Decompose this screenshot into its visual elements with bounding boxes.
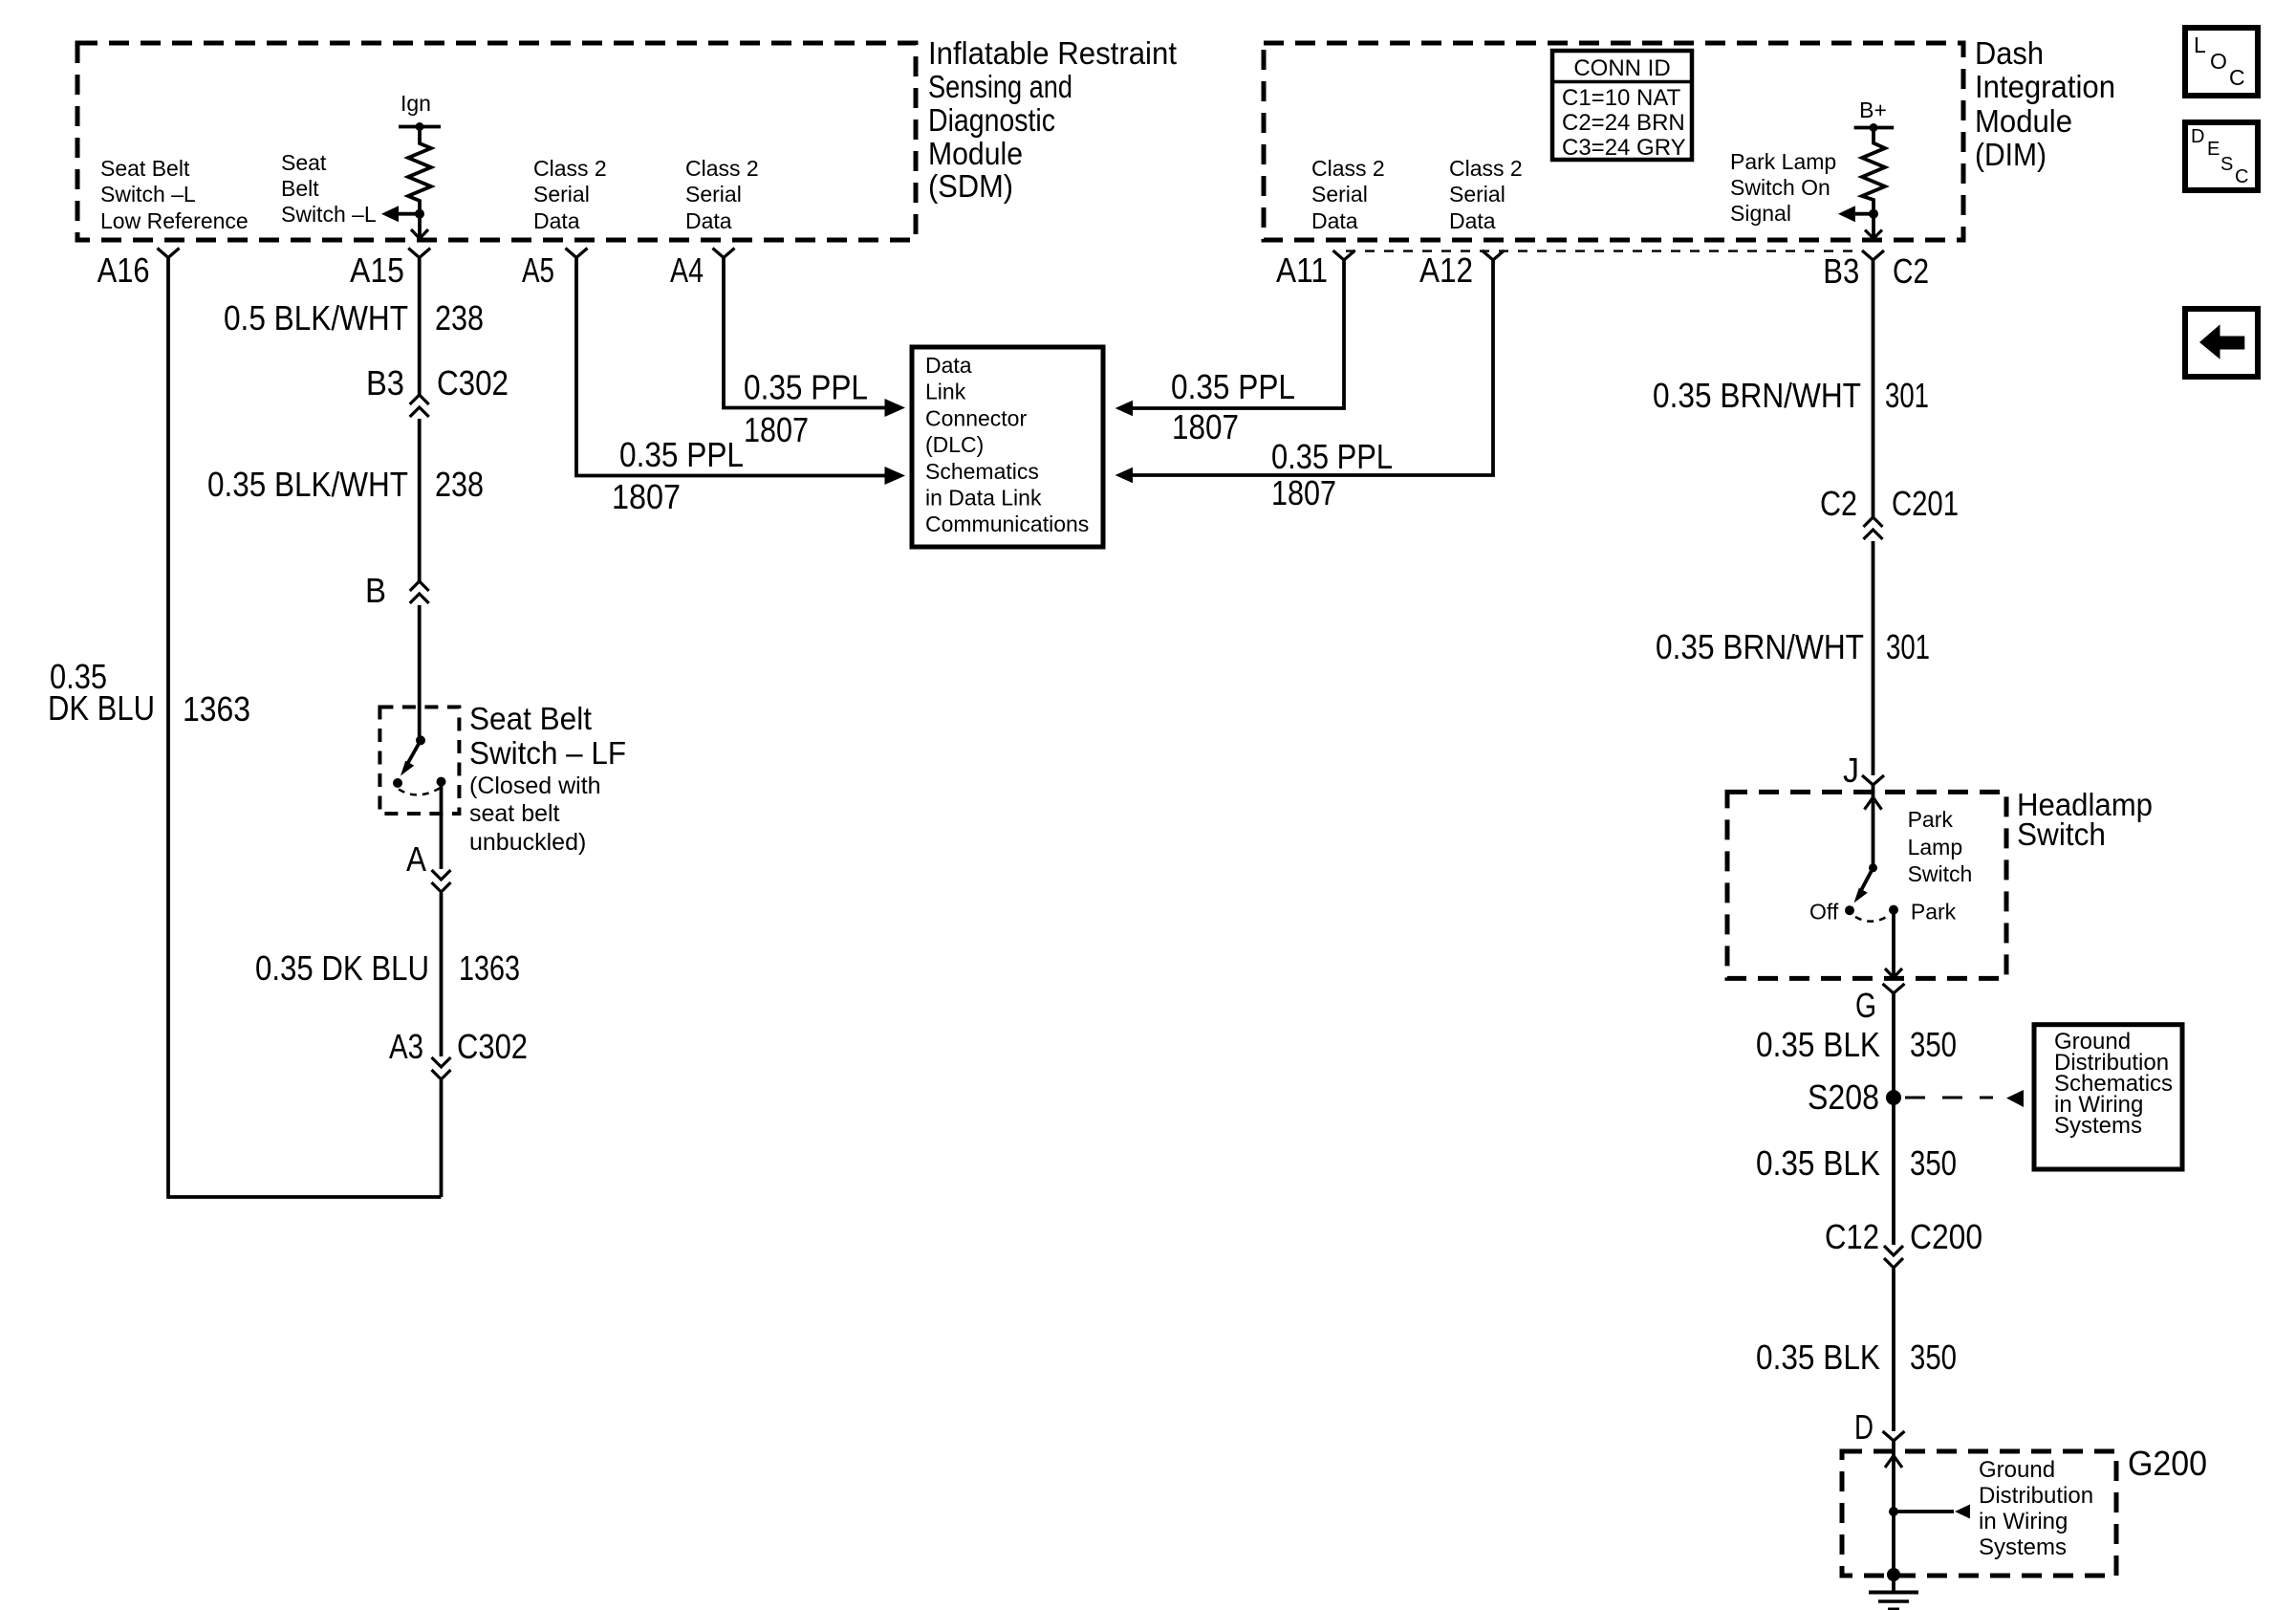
svg-text:0.35 BRN/WHT: 0.35 BRN/WHT [1656, 627, 1864, 666]
pin A16 [158, 249, 180, 258]
svg-text:G200: G200 [2128, 1444, 2207, 1483]
arrow to Seat Belt Switch -L label [381, 206, 420, 222]
svg-text:C2=24 BRN: C2=24 BRN [1562, 110, 1685, 136]
svg-text:D: D [1854, 1407, 1874, 1447]
wire: C201 to pin J [1872, 541, 1875, 775]
pin G [1855, 984, 1905, 1025]
svg-text:Module: Module [1975, 103, 2072, 139]
svg-text:Seat Belt: Seat Belt [469, 701, 592, 736]
resistor R-DIM (B+ pull-up inside DIM) [1854, 123, 1895, 214]
svg-text:Sensing and: Sensing and [928, 69, 1072, 104]
wire: A5 to DLC [576, 258, 905, 517]
svg-text:Data: Data [533, 208, 580, 233]
label: Seat Belt Switch -L Low Reference [100, 156, 249, 233]
svg-text:Communications: Communications [925, 511, 1089, 536]
wire: switch output to pin A [440, 782, 444, 869]
svg-text:(SDM): (SDM) [928, 168, 1013, 204]
svg-text:1363: 1363 [459, 948, 520, 988]
switch PLS arm with arrowhead [1854, 868, 1874, 903]
svg-text:C: C [2229, 65, 2245, 90]
in-line connector A [406, 839, 451, 892]
svg-text:Ground: Ground [1979, 1457, 2055, 1483]
wire: A16 low reference loop [168, 258, 442, 1198]
svg-text:301: 301 [1886, 627, 1930, 666]
label: Park Lamp Switch On Signal [1730, 149, 1836, 226]
pin J [1843, 751, 1884, 790]
svg-text:238: 238 [435, 298, 484, 337]
svg-text:238: 238 [435, 465, 484, 504]
module box: Inflatable Restraint Sensing and Diagnostic Module (SDM) [77, 43, 916, 240]
svg-text:Serial: Serial [1311, 182, 1368, 207]
svg-text:DK BLU: DK BLU [48, 688, 155, 728]
dashed throw arc [1855, 916, 1889, 922]
back-arrow legend box [2185, 309, 2258, 377]
pin A12 [1483, 250, 1505, 260]
svg-text:Park: Park [1908, 807, 1954, 832]
ground box G200 [1842, 1451, 2116, 1576]
LOC legend box [2185, 28, 2258, 96]
svg-text:350: 350 [1910, 1338, 1957, 1377]
svg-text:A3: A3 [389, 1027, 423, 1066]
svg-text:Inflatable Restraint: Inflatable Restraint [928, 35, 1177, 71]
module box: Headlamp Switch [1727, 792, 2006, 978]
svg-text:Switch: Switch [2017, 816, 2106, 852]
wire with down arrow to pin A15 [411, 214, 428, 239]
wire: A4 to DLC [724, 258, 905, 450]
svg-text:Ign: Ign [401, 91, 431, 116]
svg-text:Lamp: Lamp [1908, 835, 1963, 859]
switch contact wire-side [437, 777, 446, 787]
arrow to Ground Distribution reference [1894, 1457, 2093, 1560]
svg-text:Integration: Integration [1975, 69, 2115, 104]
wire: A11 to DLC [1116, 260, 1344, 446]
svg-text:(DLC): (DLC) [925, 432, 984, 457]
junction node at resistor output [1869, 209, 1878, 219]
arrow to Signal label [1838, 206, 1874, 222]
svg-text:0.35 BLK: 0.35 BLK [1756, 1338, 1880, 1377]
svg-text:Seat Belt: Seat Belt [100, 156, 190, 181]
svg-text:Off: Off [1809, 900, 1839, 925]
in-line connector B [365, 571, 429, 610]
svg-text:Serial: Serial [533, 182, 590, 207]
svg-text:0.35 BLK/WHT: 0.35 BLK/WHT [207, 465, 408, 504]
svg-text:Systems: Systems [1979, 1534, 2067, 1560]
wire: G to splice S208 [1892, 993, 1895, 1245]
svg-text:B3: B3 [366, 363, 404, 402]
svg-text:B+: B+ [1859, 98, 1887, 122]
pin D [1854, 1407, 1905, 1447]
svg-text:C1=10 NAT: C1=10 NAT [1562, 85, 1681, 111]
svg-text:Module: Module [928, 136, 1023, 171]
svg-text:1807: 1807 [612, 477, 681, 516]
label: Class 2 Serial Data (pin A4) [685, 156, 759, 233]
svg-text:Class 2: Class 2 [685, 156, 759, 181]
pin A5 [566, 249, 588, 258]
svg-text:Belt: Belt [281, 176, 319, 201]
svg-text:J: J [1843, 751, 1859, 790]
svg-text:C302: C302 [437, 363, 509, 402]
svg-text:CONN ID: CONN ID [1573, 55, 1670, 81]
svg-text:(Closed with: (Closed with [469, 772, 601, 799]
pin A4 [713, 249, 735, 258]
svg-text:Diagnostic: Diagnostic [928, 102, 1055, 138]
reference box: Data Link Connector (DLC) Schematics [912, 347, 1103, 547]
wire label 0.35 DK BLU 1363 [48, 657, 250, 729]
switch SBS-LF arm with arrowhead [401, 740, 421, 775]
svg-text:Serial: Serial [685, 182, 742, 207]
svg-text:301: 301 [1885, 376, 1929, 415]
wire: A12 to DLC [1116, 260, 1493, 512]
in-line connector B3/C302 [366, 363, 509, 417]
svg-text:0.35 DK BLU: 0.35 DK BLU [255, 948, 429, 988]
svg-text:Link: Link [925, 380, 966, 404]
svg-text:(DIM): (DIM) [1975, 137, 2047, 172]
svg-text:C12: C12 [1825, 1217, 1879, 1256]
svg-text:0.35 PPL: 0.35 PPL [1271, 437, 1393, 476]
wire: J into switch with up arrow [1865, 785, 1882, 868]
splice S208 [1808, 1077, 2024, 1117]
wire: A to connector A3/C302 [440, 893, 444, 1056]
svg-text:G: G [1855, 986, 1876, 1025]
wire: Park contact to pin G with down arrow [1885, 910, 1902, 978]
svg-text:A11: A11 [1276, 250, 1328, 290]
svg-text:Class 2: Class 2 [1449, 156, 1523, 181]
svg-text:in Wiring: in Wiring [1979, 1509, 2068, 1534]
svg-text:C200: C200 [1910, 1217, 1982, 1256]
svg-text:350: 350 [1910, 1143, 1957, 1183]
svg-text:C2: C2 [1893, 251, 1929, 291]
svg-text:Serial: Serial [1449, 182, 1505, 207]
svg-text:O: O [2210, 49, 2227, 74]
wire: B down into seat belt switch [418, 605, 422, 740]
component box: Seat Belt Switch - LF [379, 707, 459, 815]
svg-text:A4: A4 [670, 250, 704, 290]
svg-text:0.35 PPL: 0.35 PPL [1171, 367, 1295, 406]
svg-text:A5: A5 [522, 250, 554, 290]
switch PLS common contact [1869, 863, 1877, 872]
switch contact Off [1845, 905, 1854, 915]
wire: C302 to connector B [418, 419, 422, 581]
svg-text:Switch –L: Switch –L [281, 202, 377, 227]
ground symbol G200 [1869, 1568, 1918, 1609]
in-line connector C12/C200 [1825, 1217, 1982, 1268]
switch contact Park [1889, 905, 1898, 915]
svg-text:Switch –L: Switch –L [100, 182, 196, 207]
svg-text:C2: C2 [1820, 484, 1857, 523]
svg-text:unbuckled): unbuckled) [469, 829, 586, 856]
wire: A3 down to loop bottom [440, 1080, 444, 1197]
label: Park Lamp Switch [1908, 807, 1973, 886]
switch contact Off-side [393, 778, 402, 788]
wire: A15 to connector C302 [418, 258, 422, 396]
svg-text:Distribution: Distribution [1979, 1483, 2093, 1509]
module box: Dash Integration Module (DIM) [1264, 43, 1963, 240]
in-line connector A3/C302 [389, 1027, 528, 1079]
svg-text:0.35 PPL: 0.35 PPL [619, 435, 744, 474]
svg-text:Switch: Switch [1908, 861, 1973, 886]
label: Class 2 Serial Data (pin A12) [1449, 156, 1523, 233]
dashed throw arc [399, 788, 441, 794]
svg-text:0.35 BLK: 0.35 BLK [1756, 1143, 1880, 1183]
svg-text:in Data Link: in Data Link [925, 486, 1042, 511]
svg-text:Class 2: Class 2 [533, 156, 607, 181]
svg-text:A16: A16 [97, 250, 150, 290]
module name DIM [1975, 35, 2115, 172]
wire: C200 to pin D [1892, 1269, 1895, 1431]
svg-text:D: D [2191, 126, 2204, 147]
pin A15 [408, 249, 430, 258]
svg-text:Data: Data [1311, 208, 1358, 233]
svg-text:Data: Data [1449, 208, 1496, 233]
svg-text:C201: C201 [1892, 484, 1959, 523]
svg-text:B3: B3 [1823, 251, 1859, 291]
svg-text:Data: Data [685, 208, 732, 233]
svg-text:Seat: Seat [281, 150, 327, 175]
svg-text:1807: 1807 [1271, 473, 1336, 512]
junction node at resistor output [415, 209, 424, 219]
svg-text:seat belt: seat belt [469, 800, 560, 827]
svg-text:0.5 BLK/WHT: 0.5 BLK/WHT [224, 298, 408, 337]
svg-text:Data: Data [925, 353, 972, 378]
label: Class 2 Serial Data (pin A5) [533, 156, 607, 233]
svg-text:A15: A15 [350, 250, 404, 290]
svg-text:B: B [365, 571, 386, 610]
svg-text:Systems: Systems [2054, 1113, 2142, 1139]
in-line connector C2/C201 [1820, 484, 1959, 539]
switch SBS-LF common contact [416, 735, 425, 745]
svg-text:350: 350 [1910, 1025, 1957, 1064]
label: Class 2 Serial Data (pin A11) [1311, 156, 1385, 233]
wire: B3/C2 to connector C201 [1872, 260, 1875, 517]
connector C2 boundary (thin dashed) [1346, 250, 1854, 251]
module name SDM [928, 35, 1177, 204]
CONN ID table [1552, 51, 1692, 161]
DESC legend box [2185, 122, 2258, 190]
module name: Seat Belt Switch - LF [469, 701, 626, 856]
junction node in G200 [1889, 1507, 1898, 1516]
svg-text:Signal: Signal [1730, 201, 1791, 226]
svg-text:Park: Park [1911, 900, 1957, 925]
svg-text:A12: A12 [1419, 250, 1473, 290]
svg-text:E: E [2207, 139, 2220, 160]
svg-text:1807: 1807 [744, 410, 809, 449]
svg-text:1363: 1363 [183, 689, 250, 729]
svg-text:Schematics: Schematics [925, 459, 1039, 484]
pin A11 [1333, 250, 1355, 260]
svg-text:Switch – LF: Switch – LF [469, 735, 626, 771]
svg-text:1807: 1807 [1172, 407, 1239, 446]
svg-text:Class 2: Class 2 [1311, 156, 1385, 181]
svg-text:0.35 PPL: 0.35 PPL [744, 368, 868, 407]
svg-text:S: S [2220, 154, 2233, 175]
reference box: Ground Distribution Schematics in Wiring Systems [2034, 1025, 2182, 1169]
svg-text:C302: C302 [457, 1027, 528, 1066]
resistor R-SDM (ignition pull-up inside SDM) [399, 122, 441, 214]
module name: Headlamp Switch [2017, 787, 2153, 852]
svg-text:Switch On: Switch On [1730, 175, 1830, 200]
svg-text:L: L [2194, 33, 2206, 57]
svg-text:Park Lamp: Park Lamp [1730, 149, 1836, 174]
svg-text:C3=24 GRY: C3=24 GRY [1562, 135, 1686, 161]
wire into G200 with up arrow [1885, 1441, 1902, 1575]
svg-text:Dash: Dash [1975, 35, 2044, 71]
svg-text:Connector: Connector [925, 405, 1027, 430]
svg-text:A: A [406, 839, 426, 879]
label: Seat Belt Switch -L [281, 150, 377, 227]
wire with down arrow to pin B3/C2 [1865, 214, 1882, 239]
svg-text:0.35 BLK: 0.35 BLK [1756, 1025, 1880, 1064]
pin B3 / C2 [1862, 250, 1884, 260]
svg-text:S208: S208 [1808, 1077, 1879, 1117]
svg-text:Low Reference: Low Reference [100, 208, 249, 233]
svg-text:0.35 BRN/WHT: 0.35 BRN/WHT [1653, 376, 1861, 415]
svg-text:C: C [2235, 166, 2248, 187]
